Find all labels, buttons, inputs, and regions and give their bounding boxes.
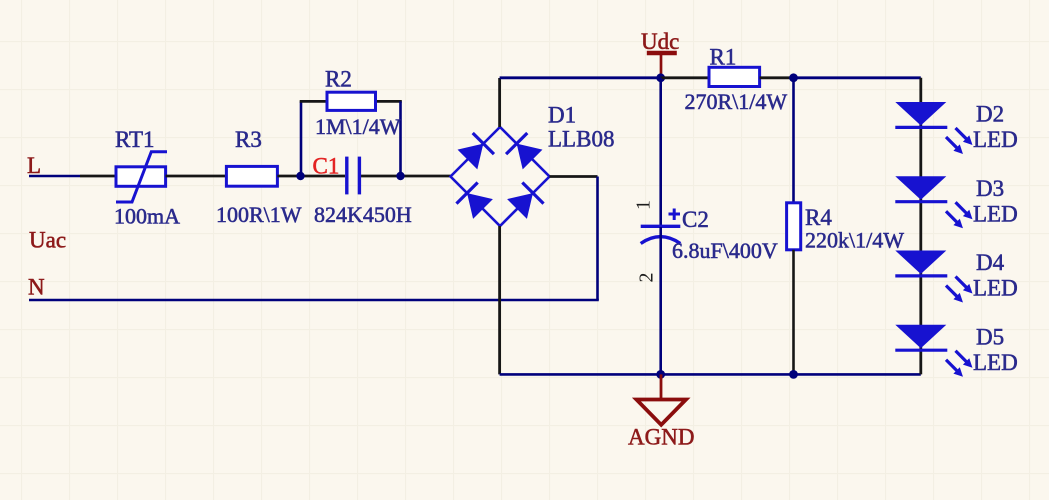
junction R4 bottom	[789, 370, 798, 379]
wire L to RT1	[80, 175, 116, 178]
capacitor C1	[347, 157, 360, 195]
wire R2 loop top left	[300, 100, 327, 103]
wire RT1 to R3	[166, 175, 227, 178]
svg-text:270R\1/4W: 270R\1/4W	[685, 89, 788, 114]
junction Udc	[656, 73, 665, 82]
svg-text:R4: R4	[805, 205, 832, 230]
bridge diode bottom-left	[456, 182, 493, 219]
wire N riser	[596, 177, 599, 301]
svg-text:Udc: Udc	[641, 29, 679, 54]
bridge rectifier D1 diamond	[451, 127, 550, 226]
svg-text:AGND: AGND	[628, 425, 694, 450]
wire bottom rail	[500, 373, 921, 376]
junction R4 top	[789, 73, 798, 82]
wire R2 loop top right	[376, 100, 402, 103]
wire top rail bridge to Udc	[500, 76, 661, 79]
svg-text:RT1: RT1	[115, 127, 155, 152]
svg-text:C1: C1	[313, 154, 340, 179]
wire LED string	[919, 78, 922, 375]
wire bridge bottom stub	[498, 226, 501, 374]
wire top rail to LEDs	[794, 76, 921, 79]
resistor R1	[709, 67, 760, 86]
svg-text:LED: LED	[973, 127, 1018, 152]
svg-text:D1: D1	[548, 103, 576, 128]
wire Udc to R1	[661, 76, 709, 79]
svg-text:L: L	[27, 153, 41, 178]
svg-text:1: 1	[633, 200, 655, 210]
svg-text:N: N	[28, 275, 45, 300]
svg-text:D4: D4	[976, 250, 1005, 275]
wire bridge top stub	[498, 78, 501, 127]
bridge diode top-right	[506, 133, 543, 170]
svg-text:LLB08: LLB08	[548, 127, 614, 152]
svg-text:LED: LED	[973, 276, 1018, 301]
junction at C1 right	[396, 172, 404, 180]
wire R3 to C1	[277, 175, 345, 178]
svg-text:LED: LED	[973, 202, 1018, 227]
svg-text:R1: R1	[710, 45, 737, 70]
resistor R4	[787, 78, 801, 375]
svg-text:6.8uF\400V: 6.8uF\400V	[672, 238, 778, 263]
svg-text:824K450H: 824K450H	[314, 202, 412, 227]
bridge diode bottom-right	[506, 182, 543, 219]
bridge diode top-left	[457, 133, 494, 170]
junction C2 bottom	[656, 370, 665, 379]
LED D2	[895, 102, 975, 157]
LED D5	[895, 325, 975, 380]
svg-text:D5: D5	[976, 324, 1004, 349]
svg-text:100R\1W: 100R\1W	[216, 202, 302, 227]
wire C1 to bridge	[361, 175, 451, 178]
power symbol Udc	[647, 53, 677, 76]
wire R2 loop right vertical	[399, 101, 402, 176]
svg-text:Uac: Uac	[29, 228, 66, 253]
LED D3	[895, 176, 975, 231]
svg-text:R2: R2	[325, 67, 352, 92]
svg-text:D3: D3	[976, 176, 1004, 201]
wire bridge right stub	[550, 175, 598, 178]
wire N horizontal	[29, 299, 599, 302]
resistor R2	[327, 92, 376, 110]
svg-text:C2: C2	[682, 207, 709, 232]
capacitor C2	[641, 78, 681, 375]
wire L stub	[29, 175, 80, 178]
fusible resistor RT1	[116, 152, 167, 202]
svg-text:100mA: 100mA	[114, 204, 180, 229]
junction at C1 left	[296, 172, 304, 180]
svg-text:R3: R3	[235, 127, 262, 152]
svg-text:2: 2	[636, 273, 658, 283]
resistor R3	[226, 166, 277, 186]
ground AGND	[636, 374, 686, 424]
wire R2 loop left vertical	[300, 101, 303, 176]
svg-text:D2: D2	[976, 102, 1004, 127]
wire R1 to R4 node	[760, 76, 794, 79]
svg-text:1M\1/4W: 1M\1/4W	[315, 114, 401, 139]
svg-text:LED: LED	[973, 350, 1018, 375]
svg-text:220k\1/4W: 220k\1/4W	[805, 228, 904, 253]
LED D4	[895, 251, 975, 306]
